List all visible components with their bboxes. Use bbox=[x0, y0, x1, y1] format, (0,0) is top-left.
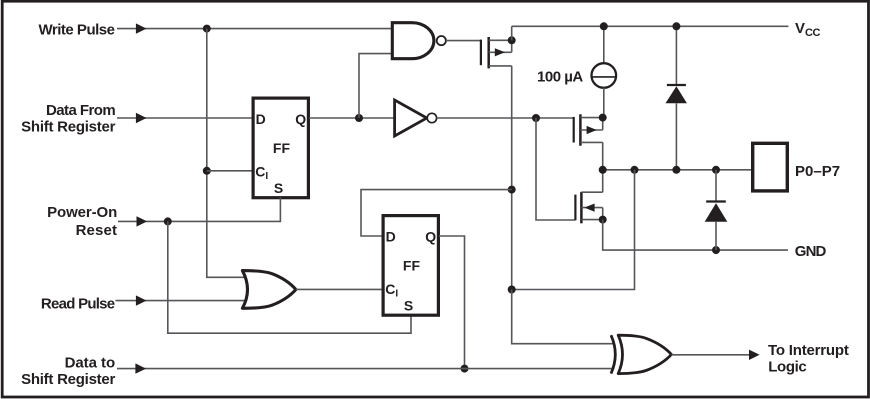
wire Q2 drain down to pin node bbox=[602, 142, 604, 169]
svg-text:P0–P7: P0–P7 bbox=[795, 163, 840, 180]
svg-text:S: S bbox=[404, 298, 413, 314]
node Q2 source/bulk tie bbox=[599, 114, 607, 122]
wire to FF1 CI bbox=[207, 170, 252, 172]
current source I1 100uA bbox=[592, 26, 617, 117]
node write-pulse junction bbox=[203, 25, 211, 33]
wire pin feedback down and left bbox=[512, 170, 635, 290]
svg-text:D: D bbox=[256, 111, 266, 127]
node Q3 source/bulk tie bbox=[599, 216, 607, 224]
node FF1 Q junction bbox=[355, 114, 363, 122]
flip-flop FF1 bbox=[253, 98, 308, 198]
node FF2 Q / data line bbox=[461, 365, 469, 373]
wire NAND output to Q1 gate bbox=[446, 40, 481, 42]
svg-text:Q: Q bbox=[425, 229, 436, 245]
node FF1 clock junction bbox=[203, 167, 211, 175]
arrow Data to bbox=[135, 363, 146, 373]
wire FF1 Q up to NAND input bbox=[359, 54, 391, 118]
svg-text:Logic: Logic bbox=[768, 359, 806, 376]
wire XOR output to interrupt bbox=[671, 354, 749, 356]
wire Power-On Reset input bbox=[118, 198, 280, 222]
node Q1 drain/bulk tie bbox=[508, 36, 516, 44]
node FF2 D tap bbox=[508, 186, 516, 194]
svg-text:FF: FF bbox=[403, 257, 421, 273]
bubble U1 output bbox=[437, 36, 446, 45]
svg-text:Reset: Reset bbox=[76, 222, 118, 239]
svg-text:Write Pulse: Write Pulse bbox=[38, 22, 114, 39]
wire POR down to FF2 S bbox=[168, 221, 411, 333]
svg-text:Shift Register: Shift Register bbox=[21, 118, 115, 135]
nand-gate U1 bbox=[392, 23, 434, 59]
svg-text:Q: Q bbox=[295, 111, 306, 127]
inverter U2 bbox=[395, 100, 427, 136]
wire Q1 source down the long feedback column bbox=[511, 66, 513, 290]
wire Write Pulse input bbox=[117, 28, 391, 30]
arrow Read Pulse bbox=[136, 295, 147, 305]
flip-flop FF2 bbox=[383, 216, 438, 316]
wire OR output to FF2 CI bbox=[296, 288, 384, 290]
svg-text:Data From: Data From bbox=[46, 102, 115, 119]
port box P0-P7 bbox=[753, 143, 788, 191]
node pin row left bbox=[599, 166, 607, 174]
bubble U2 output bbox=[427, 113, 436, 122]
svg-text:Data to: Data to bbox=[65, 354, 116, 371]
node inverter output split bbox=[532, 114, 540, 122]
wire FF2 Q down to data line bbox=[439, 236, 465, 369]
svg-text:Read Pulse: Read Pulse bbox=[41, 295, 115, 312]
wire feedback down to XOR top input bbox=[512, 290, 614, 344]
node POR junction bbox=[164, 217, 172, 225]
arrow to interrupt logic bbox=[749, 350, 760, 360]
wire Data to Shift Register bbox=[117, 368, 614, 370]
node pin feedback junction bbox=[508, 286, 516, 294]
svg-text:FF: FF bbox=[273, 140, 291, 156]
svg-text:100 µA: 100 µA bbox=[537, 69, 583, 86]
node pin row / D1 bbox=[672, 166, 680, 174]
transistor Q2 (p-channel current-source pull-up) bbox=[574, 114, 603, 145]
svg-text:To Interrupt: To Interrupt bbox=[768, 342, 849, 359]
node VCC / D1 bbox=[672, 22, 680, 30]
node VCC / current source bbox=[600, 22, 608, 30]
svg-text:Power-On: Power-On bbox=[47, 204, 117, 221]
arrow Power-On Reset bbox=[137, 216, 148, 226]
xor-gate U4 bbox=[611, 335, 615, 373]
wire Q1 drain up to VCC rail bbox=[511, 26, 513, 40]
wire FF1 Q to inverter bbox=[309, 117, 395, 119]
arrow Write Pulse bbox=[136, 23, 147, 33]
transistor Q1 (p-channel write pull-up) bbox=[481, 37, 512, 68]
transistor Q3 (n-channel pull-down) bbox=[575, 192, 602, 223]
svg-text:S: S bbox=[274, 180, 283, 196]
wire FF2 D tap to FF2 D input bbox=[361, 190, 512, 236]
svg-text:Shift Register: Shift Register bbox=[21, 371, 115, 388]
diode D2 (pin to GND clamp) bbox=[705, 170, 728, 250]
wire Q3 source to GND rail bbox=[603, 220, 788, 251]
node pin row / D2 bbox=[712, 166, 720, 174]
arrow Data From bbox=[136, 113, 147, 123]
wire inverter output down to Q3 gate bbox=[536, 118, 575, 220]
wire write-pulse column down to OR gate bbox=[207, 29, 249, 278]
svg-text:D: D bbox=[386, 229, 396, 245]
diode D1 (pin to VCC clamp) bbox=[666, 26, 687, 170]
node pin row branch down bbox=[631, 166, 639, 174]
wire VCC rail bbox=[512, 25, 789, 27]
svg-text:GND: GND bbox=[795, 243, 827, 260]
wire Read Pulse input bbox=[116, 300, 250, 302]
svg-text:VCC: VCC bbox=[795, 20, 821, 39]
wire inverter output to Q2 gate bbox=[437, 117, 575, 119]
node GND / D2 bbox=[712, 246, 720, 254]
or-gate U3 bbox=[242, 271, 296, 309]
wire Data From input bbox=[117, 117, 252, 119]
wire Q3 drain up to pin node bbox=[602, 170, 604, 192]
wire pin node row bbox=[603, 169, 752, 171]
